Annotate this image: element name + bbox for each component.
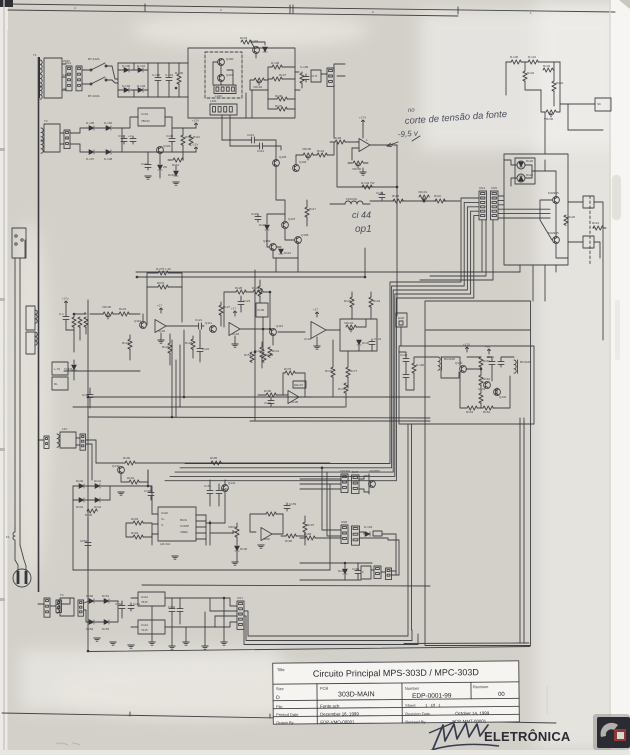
svg-text:D-101: D-101 xyxy=(137,64,146,68)
svg-text:EAR: EAR xyxy=(398,316,405,320)
svg-text:-12V: -12V xyxy=(192,143,198,147)
wire op-amp inputs xyxy=(345,141,359,143)
resistor R-102 input xyxy=(335,140,345,144)
top-right corner mark xyxy=(619,0,630,9)
wire preamp out right xyxy=(272,335,274,345)
wires connector to right block xyxy=(498,195,504,197)
title row divider xyxy=(273,682,519,684)
svg-text:D143: D143 xyxy=(94,505,102,509)
right top small box SK-140 xyxy=(595,98,611,111)
U-104 power arrows xyxy=(316,312,319,317)
svg-text:CN4: CN4 xyxy=(479,186,485,190)
svg-text:R192: R192 xyxy=(85,513,93,517)
capacitor C-054 xyxy=(85,540,91,548)
capacitor C-114 xyxy=(257,143,265,149)
dashed inner box xyxy=(205,52,242,98)
wire amp box verticals down right xyxy=(519,418,521,643)
svg-text:-9,5 v: -9,5 v xyxy=(398,129,420,139)
lighter wash bottom left strip xyxy=(20,650,280,710)
wire amp box verticals down xyxy=(407,424,409,628)
svg-text:D-106: D-106 xyxy=(104,121,113,125)
diode D-101 xyxy=(138,68,143,73)
wires regulators to CN-108 xyxy=(182,598,237,606)
amp caps right xyxy=(489,359,495,367)
wire U-105 out xyxy=(299,396,312,398)
top ruler line lower xyxy=(8,10,458,16)
left mid resistor R-150 xyxy=(258,286,262,296)
svg-text:EDP-MMT-00001: EDP-MMT-00001 xyxy=(452,719,487,724)
connector EAR-A xyxy=(352,475,360,494)
capacitor C-121 xyxy=(196,323,204,329)
transistor Q-110 xyxy=(140,322,147,329)
svg-text:U112: U112 xyxy=(141,595,148,599)
power ctl long wires xyxy=(148,470,151,486)
svg-text:Q110: Q110 xyxy=(134,319,141,323)
input network wires xyxy=(65,322,67,330)
diode D-151 xyxy=(104,599,109,604)
resistor R-120 xyxy=(564,215,568,225)
regulator U-101 7812 box xyxy=(138,108,165,126)
svg-text:Number: Number xyxy=(405,686,420,691)
diode jack row B xyxy=(365,532,370,537)
svg-text:C110: C110 xyxy=(141,162,148,166)
amp transformer coil BC-3108a xyxy=(438,357,440,370)
svg-text:+30: +30 xyxy=(485,345,490,349)
nested bus bottom line 3 xyxy=(244,622,418,645)
svg-text:L-76: L-76 xyxy=(54,367,60,371)
long wire y277 xyxy=(136,276,365,278)
svg-text:Q131: Q131 xyxy=(478,387,486,391)
svg-text:Q132: Q132 xyxy=(499,395,507,399)
svg-text:R162: R162 xyxy=(483,377,491,381)
resistor R-168 row B left xyxy=(305,536,315,540)
connector CN-104 xyxy=(479,191,487,220)
svg-text:File: File xyxy=(276,704,283,709)
svg-text:Revised By: Revised By xyxy=(405,719,425,724)
capacitor C-100 xyxy=(155,75,161,83)
svg-text:R180: R180 xyxy=(264,389,272,393)
handwritten arrow to op-amp xyxy=(387,136,420,147)
svg-text:R126: R126 xyxy=(185,341,193,345)
svg-text:U113: U113 xyxy=(141,623,148,627)
bridge diodes D-140..143 xyxy=(79,484,84,489)
wire to op-amp input xyxy=(327,142,334,155)
resistor R-178 xyxy=(344,383,348,393)
transistor Q-106 xyxy=(293,165,300,172)
resistor R-125 vertical xyxy=(168,343,172,353)
row3 divider xyxy=(273,706,519,708)
svg-text:Sheet: Sheet xyxy=(405,703,416,708)
fuse F-001 xyxy=(13,528,15,544)
svg-text:78R12: 78R12 xyxy=(141,119,150,123)
pot VR-100 xyxy=(353,161,363,165)
diode D-112 xyxy=(265,225,270,230)
amp cap bank left xyxy=(403,356,409,364)
right block lower wires xyxy=(555,203,557,237)
svg-text:BC3108: BC3108 xyxy=(444,357,455,361)
svg-text:D113: D113 xyxy=(284,251,291,255)
diode D-102 xyxy=(124,88,129,93)
svg-text:R104: R104 xyxy=(240,36,248,40)
zener D-130 xyxy=(357,340,362,345)
connector strip J-101 below xyxy=(210,104,237,115)
box DE-107 xyxy=(293,381,306,388)
amp power arrows xyxy=(466,347,469,352)
svg-text:D110: D110 xyxy=(168,173,175,177)
op-amp U-102 power arrows xyxy=(160,308,163,313)
svg-text:R168: R168 xyxy=(304,532,312,536)
feedback wires U-103 xyxy=(224,292,236,327)
external box BR-140a xyxy=(583,196,594,208)
svg-text:Q107: Q107 xyxy=(288,217,296,221)
resistor R-143 vert xyxy=(369,297,373,307)
row B wires xyxy=(322,525,341,530)
pot VR-105 xyxy=(303,153,313,157)
junction dots xyxy=(136,276,138,278)
wires to grounds xyxy=(151,606,153,642)
regulator U-112 7815 xyxy=(138,592,165,606)
wire CN to bridge xyxy=(86,440,96,463)
svg-text:C107: C107 xyxy=(118,134,126,138)
svg-text:CN7: CN7 xyxy=(237,596,243,600)
cap C-132 xyxy=(268,398,274,406)
resistor R-117 xyxy=(305,207,309,217)
svg-text:C109: C109 xyxy=(166,134,174,138)
zener D-109 xyxy=(158,165,163,170)
svg-text:Q112: Q112 xyxy=(276,324,283,328)
transistor Q-112 xyxy=(270,329,277,336)
resistor R-176 column xyxy=(331,367,335,377)
transistor Q-103 xyxy=(157,147,164,154)
lighter wash right side xyxy=(535,0,630,750)
ground row bottom psu xyxy=(94,638,100,641)
resistor R-196 xyxy=(286,534,296,538)
AC plug symbol xyxy=(13,569,31,587)
svg-text:EDP-0001-99: EDP-0001-99 xyxy=(412,692,452,699)
svg-text:+17V: +17V xyxy=(359,116,366,120)
svg-text:D-107: D-107 xyxy=(86,157,95,161)
connector CN-C2 xyxy=(386,568,392,580)
wires R193 R194 xyxy=(126,523,133,537)
mains wires vertical xyxy=(14,258,16,528)
transformer T1 primary bar xyxy=(38,57,40,98)
row2 divider xyxy=(273,698,519,700)
transistor Q-105 xyxy=(273,160,280,167)
svg-text:R112: R112 xyxy=(193,135,200,139)
lighter wash top right area xyxy=(420,10,620,150)
right box inner bottom line xyxy=(404,642,529,645)
svg-text:ELETRÔNICA: ELETRÔNICA xyxy=(484,729,571,744)
diode D-107 xyxy=(89,150,94,155)
long wire y417 xyxy=(88,417,430,418)
svg-text:+12V: +12V xyxy=(192,119,199,123)
connector strip J-100 inside box xyxy=(214,85,236,94)
svg-text:BIAS: BIAS xyxy=(180,518,187,522)
power arrow +17V xyxy=(362,120,365,125)
connector CN-106 xyxy=(80,434,86,450)
resistor R-194 xyxy=(133,535,143,539)
svg-text:R196: R196 xyxy=(285,539,293,543)
cluster wires q107 xyxy=(276,166,285,221)
svg-text:D141: D141 xyxy=(94,479,102,483)
wire run y201 xyxy=(370,200,394,202)
resistor R-104b xyxy=(317,153,327,157)
wire CN-101 to switch S-100 xyxy=(82,69,90,71)
svg-text:C123: C123 xyxy=(243,299,251,303)
IC pin stubs right xyxy=(196,514,206,516)
svg-text:RL: RL xyxy=(54,382,58,386)
resistor R-121 external xyxy=(593,226,603,230)
resistor R-128 top xyxy=(236,290,246,294)
bottom border x88 to 530 xyxy=(88,647,530,652)
right top pot VR-130 xyxy=(546,110,556,114)
svg-text:L101: L101 xyxy=(210,99,217,103)
row A wires left xyxy=(300,478,341,480)
handwritten signature xyxy=(433,723,488,749)
svg-text:R108: R108 xyxy=(392,194,400,198)
op-amp U-105 xyxy=(288,391,299,404)
svg-text:+17: +17 xyxy=(313,308,318,312)
regulator U-113 7915 xyxy=(138,620,165,634)
capacitor C-120 left xyxy=(87,392,93,400)
transistor Q-121 xyxy=(553,237,560,244)
left sheet inner edge xyxy=(7,30,9,750)
svg-text:C122: C122 xyxy=(202,347,210,351)
input cap C-1 xyxy=(63,314,69,322)
svg-text:D140: D140 xyxy=(76,479,84,483)
svg-text:U105: U105 xyxy=(291,400,299,404)
svg-text:7815: 7815 xyxy=(141,600,148,604)
svg-text:C131: C131 xyxy=(374,337,382,341)
resistor R-193 xyxy=(133,521,143,525)
svg-text:T4: T4 xyxy=(60,593,64,597)
svg-text:CN8: CN8 xyxy=(341,520,347,524)
inner wiring of dashed box xyxy=(220,65,222,75)
svg-text:Size: Size xyxy=(276,686,285,691)
diode D-150 xyxy=(89,599,94,604)
bridge inner wiring xyxy=(118,69,124,71)
scan smudge right edge 1 xyxy=(612,175,621,220)
wires U-104 right xyxy=(326,329,340,331)
svg-text:R-075 1.2K: R-075 1.2K xyxy=(156,267,171,271)
wire right block to page edge xyxy=(594,202,603,260)
feedback resistor R-076 xyxy=(158,285,168,289)
svg-text:L100: L100 xyxy=(215,94,222,98)
row2 bridge wires xyxy=(70,128,89,133)
capacitor C-106 cluster xyxy=(303,74,309,82)
capacitor C-101 xyxy=(166,75,172,83)
svg-text:D-103: D-103 xyxy=(137,84,146,88)
svg-text:D-100: D-100 xyxy=(122,64,131,68)
wire y90 box stub xyxy=(295,89,300,91)
pot VR-102 in box xyxy=(254,78,264,82)
connector CN-100 xyxy=(66,66,72,91)
svg-text:+17: +17 xyxy=(231,307,236,311)
cap C-123 xyxy=(238,299,244,307)
nested bus bottom line 2 xyxy=(244,616,412,641)
svg-text:C160: C160 xyxy=(115,602,123,606)
op-amp U-111 xyxy=(261,528,272,541)
heavy vertical bus x38 xyxy=(38,57,40,592)
svg-text:C-100: C-100 xyxy=(152,73,161,77)
svg-text:R124: R124 xyxy=(122,341,130,345)
resistor R-192 xyxy=(87,509,97,513)
svg-text:R179: R179 xyxy=(284,367,292,371)
EAR box xyxy=(396,313,407,327)
op-amp U-104 center xyxy=(311,322,326,339)
connector CN-108 strip xyxy=(237,601,244,629)
wire vertical x397 down xyxy=(396,204,398,316)
svg-text:Revision Date: Revision Date xyxy=(405,711,431,716)
svg-text:BC3108: BC3108 xyxy=(520,360,531,364)
right top resistor R-133 xyxy=(543,68,553,72)
svg-text:CN1: CN1 xyxy=(65,61,71,65)
pot VR-012 xyxy=(235,527,239,537)
capacitor C-110 gnd xyxy=(145,162,151,170)
transistor bracket 2SD xyxy=(359,476,369,479)
svg-text:Revision: Revision xyxy=(473,684,488,689)
resistor R-140 col xyxy=(260,347,264,357)
svg-text:V+: V+ xyxy=(161,517,165,521)
svg-text:Q103: Q103 xyxy=(163,144,171,148)
wire Q-102 to box xyxy=(251,42,254,47)
svg-text:Q141: Q141 xyxy=(228,481,236,485)
svg-text:C161: C161 xyxy=(133,602,141,606)
svg-text:+17V: +17V xyxy=(463,343,470,347)
wire T1 to CN-100 xyxy=(62,63,66,65)
transistor Q-120 xyxy=(553,197,560,204)
capacitor C-104 xyxy=(379,192,385,200)
capacitor C-122 xyxy=(197,346,203,354)
svg-text:D153: D153 xyxy=(102,627,110,631)
diode D-165 row C xyxy=(343,569,348,574)
right top resistor R-132 vertical xyxy=(523,71,527,81)
svg-text:Q101: Q101 xyxy=(226,73,234,77)
connector CN-B2 xyxy=(352,526,360,545)
svg-text:R191: R191 xyxy=(127,476,135,480)
svg-text:U104: U104 xyxy=(304,337,312,341)
row4 divider xyxy=(273,714,519,716)
cap C-161 xyxy=(128,603,134,611)
svg-text:R125: R125 xyxy=(162,345,170,349)
svg-text:R102: R102 xyxy=(334,136,342,140)
capacitor C-107 xyxy=(121,136,127,144)
right top resistor R-134 vertical xyxy=(552,81,556,91)
svg-text:R163: R163 xyxy=(466,410,474,414)
left connector low xyxy=(44,598,50,617)
resistor R-151 pair xyxy=(250,352,254,362)
amp resistors bottom xyxy=(467,406,477,410)
resistor R-123 xyxy=(119,312,129,316)
amp transistor Q-130 xyxy=(460,366,467,373)
connector CN-107 xyxy=(78,600,84,616)
left vertical wires x255-263 xyxy=(254,270,256,420)
cap C-160 xyxy=(119,603,125,611)
svg-text:R133: R133 xyxy=(543,64,551,68)
transformer T3 12V xyxy=(60,432,76,448)
svg-text:Q111: Q111 xyxy=(205,321,212,325)
column divider mid xyxy=(401,683,403,723)
diode D-100 xyxy=(124,68,129,73)
resistor R-111 xyxy=(181,135,185,145)
ribbon bundle wires xyxy=(185,198,479,464)
svg-text:D152: D152 xyxy=(86,627,94,631)
dashed line right of block xyxy=(589,196,591,265)
svg-text:R076: R076 xyxy=(157,281,165,285)
top ruler divider tick 2 xyxy=(457,7,459,14)
left winding marks xyxy=(35,310,37,323)
svg-text:303D-MAIN: 303D-MAIN xyxy=(338,691,375,698)
small box inside right block xyxy=(515,158,535,184)
svg-text:R-103 7W: R-103 7W xyxy=(361,181,375,185)
pot VR-134 xyxy=(346,325,356,329)
svg-text:R120: R120 xyxy=(568,215,576,219)
svg-text:SK: SK xyxy=(597,102,601,106)
diode LED D-121 xyxy=(517,174,525,182)
bottom frame line xyxy=(2,713,556,723)
right block bottom stub xyxy=(532,265,534,301)
wires left connectors xyxy=(38,603,44,605)
right top cluster wires xyxy=(506,61,511,63)
svg-text:12V: 12V xyxy=(62,427,67,431)
left sheet edge line xyxy=(3,0,5,750)
connector CN-B1 xyxy=(341,525,348,544)
input RC network xyxy=(72,317,76,327)
bus stub wires left xyxy=(147,470,149,486)
svg-text:Q130: Q130 xyxy=(455,361,463,365)
right top resistor cluster R-3K9 xyxy=(511,60,521,64)
svg-text:no: no xyxy=(408,107,416,113)
section borders left xyxy=(73,569,330,571)
left small connector mid xyxy=(44,436,49,448)
IC right vertical bus xyxy=(205,515,207,545)
AC inlet box xyxy=(12,228,26,258)
diode D-152 xyxy=(89,620,94,625)
box FONTE row C xyxy=(361,566,371,579)
transistor Q-107 xyxy=(282,222,289,229)
pot VR-101 xyxy=(419,195,429,199)
svg-text:C054: C054 xyxy=(80,539,88,543)
IC pin stubs left xyxy=(152,513,158,515)
junction dot run xyxy=(423,200,425,202)
svg-text:Q105: Q105 xyxy=(279,155,287,159)
svg-text:U103: U103 xyxy=(232,332,240,336)
transistor Q-101 xyxy=(218,75,225,82)
svg-text:C114: C114 xyxy=(257,149,264,153)
svg-text:BT-442A: BT-442A xyxy=(88,57,100,61)
bridge rail box xyxy=(117,63,119,97)
svg-text:op1: op1 xyxy=(355,224,372,235)
zener D-110 xyxy=(174,171,179,176)
svg-text:D142: D142 xyxy=(76,505,84,509)
svg-text:R178: R178 xyxy=(338,387,346,391)
column divider left xyxy=(316,684,318,724)
svg-text:December 16, 1999: December 16, 1999 xyxy=(320,711,359,716)
transistor Q-111 xyxy=(210,326,217,333)
svg-text:VREF: VREF xyxy=(180,530,188,534)
svg-text:C136: C136 xyxy=(257,308,265,312)
svg-text:Circuito Principal MPS-303D /: Circuito Principal MPS-303D / MPC-303D xyxy=(313,667,480,679)
left relay contact boxes xyxy=(52,362,68,375)
svg-text:R190: R190 xyxy=(123,456,131,460)
svg-text:C153: C153 xyxy=(289,502,297,506)
connector CN-101 xyxy=(76,66,82,91)
resistor R-142 vert xyxy=(350,297,354,307)
svg-text:R109: R109 xyxy=(275,104,283,108)
svg-text:F100UH: F100UH xyxy=(346,197,357,201)
vertical bundle x172-184 xyxy=(171,340,173,417)
switch S-100B BT-400A xyxy=(90,83,92,85)
